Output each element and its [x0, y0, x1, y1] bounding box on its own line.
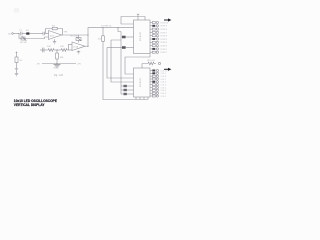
svg-text:COL 2: COL 2: [161, 93, 168, 95]
battery plates: [15, 69, 18, 70]
node D: [118, 27, 119, 28]
ground: [53, 39, 56, 44]
svg-text:Fig. 1-20: Fig. 1-20: [54, 75, 64, 77]
wire: [16, 54, 18, 58]
Vdd stub U3: [141, 64, 143, 69]
resistor R9: [142, 62, 156, 65]
svg-text:IC2 4017: IC2 4017: [140, 31, 142, 41]
row pin 8: [150, 45, 168, 48]
row pin 8: [150, 89, 167, 92]
row pin 9: [150, 92, 167, 95]
node B: [88, 35, 89, 36]
svg-text:ROW 3: ROW 3: [161, 46, 168, 48]
row pin 6: [150, 38, 168, 41]
capacitor C2: [43, 32, 45, 35]
svg-text:R10 1K: R10 1K: [148, 60, 156, 62]
left pin box P2: [107, 47, 122, 49]
svg-text:ROW 10: ROW 10: [161, 22, 170, 24]
wire (bus x121 upper): [118, 28, 121, 48]
wire: [68, 49, 72, 51]
node C: [103, 27, 104, 28]
left pin box P4: [121, 89, 124, 91]
svg-text:10K: 10K: [47, 46, 51, 48]
faint page mark: [14, 8, 19, 13]
node E: [88, 46, 89, 47]
wire (bus x111): [111, 40, 134, 82]
row pin 10: [150, 51, 168, 54]
row pin 7: [150, 41, 168, 44]
svg-text:ROW 2: ROW 2: [161, 49, 168, 51]
svg-text:10K: 10K: [60, 46, 64, 48]
svg-text:ROW 4: ROW 4: [161, 42, 168, 44]
svg-text:IC3 4017: IC3 4017: [140, 77, 142, 87]
row pin 3: [150, 75, 167, 78]
svg-text:TO PIN 14: TO PIN 14: [101, 26, 112, 28]
left pin box P5: [121, 93, 124, 95]
resistor R8 (on bus): [102, 28, 104, 36]
resistor R7: [60, 49, 68, 52]
bypass wire (pin16 loop): [121, 17, 145, 25]
ground GND1: [15, 74, 19, 76]
wire (divider rail): [40, 49, 47, 51]
capacitor C4: [43, 48, 45, 53]
svg-text:R2 1M: R2 1M: [20, 42, 27, 44]
wire: [27, 37, 45, 39]
svg-text:COL 9: COL 9: [161, 73, 168, 75]
battery B1 terminal: [16, 52, 18, 54]
svg-text:COL 4: COL 4: [161, 87, 168, 89]
svg-text:ROW 5: ROW 5: [161, 39, 168, 41]
wire: [16, 63, 18, 69]
wire: [22, 33, 26, 35]
wire: [16, 70, 18, 74]
svg-text:10K: 10K: [60, 57, 64, 59]
wire: [56, 59, 58, 64]
capacitor C1: [21, 32, 23, 36]
left bus of U3: [120, 48, 122, 95]
svg-text:COL 8: COL 8: [161, 76, 168, 78]
row pin 5: [150, 35, 168, 38]
rows of U3 outputs: [150, 69, 168, 98]
svg-text:ROW 7: ROW 7: [161, 32, 168, 34]
potentiometer R2: [19, 34, 27, 39]
svg-text:R5 10K: R5 10K: [71, 36, 79, 38]
terminal T1: [158, 62, 160, 64]
svg-text:-9V: -9V: [37, 64, 41, 66]
svg-text:ROW 9: ROW 9: [161, 26, 168, 28]
trimmer R5: [76, 38, 81, 41]
node G: [57, 63, 58, 64]
row pin 9: [150, 48, 168, 51]
wire: [55, 49, 60, 51]
svg-text:COL 1: COL 1: [161, 96, 168, 98]
left pin box P1: [121, 36, 122, 38]
svg-text:COL 6: COL 6: [161, 82, 168, 84]
node F: [57, 50, 58, 51]
input jack J1: [12, 33, 14, 35]
row pin 2: [150, 72, 167, 75]
arrow A1: [164, 18, 171, 21]
wire: [30, 33, 43, 35]
wire (to clock bus): [88, 28, 134, 46]
wire (bus x103): [103, 41, 136, 99]
wire: [56, 50, 58, 53]
row pin 1: [150, 69, 168, 72]
left pin box P3: [121, 85, 124, 87]
svg-text:+9V: +9V: [77, 64, 81, 66]
wire (lower rail): [42, 63, 76, 65]
row pin 7: [150, 86, 167, 89]
resistor R6: [56, 53, 59, 59]
title text: [14, 98, 57, 107]
wire (U1a output): [62, 34, 89, 36]
ground GND2: [54, 65, 61, 67]
capacitor C3 / ground: [77, 51, 80, 55]
IC U3 (CD4017): [134, 68, 151, 97]
battery B1: [15, 57, 18, 63]
wire: [126, 47, 134, 49]
wire (bus x107): [107, 48, 134, 79]
resistor R3: [52, 27, 57, 30]
op-amp U1b: [72, 42, 85, 51]
svg-text:COL 5: COL 5: [161, 85, 168, 87]
arrow A2: [164, 68, 171, 71]
svg-text:ROW 1: ROW 1: [161, 52, 168, 54]
resistor R1: [26, 32, 29, 34]
row pin 10: [150, 95, 167, 98]
feedback wire: [45, 29, 63, 38]
svg-text:COL 10: COL 10: [161, 70, 169, 72]
row pin 4: [150, 78, 167, 81]
row pin 6: [150, 84, 167, 87]
row pin 4: [150, 31, 168, 34]
svg-text:COL 7: COL 7: [161, 79, 168, 81]
Vdd stub: [137, 14, 139, 20]
svg-text:ROW 6: ROW 6: [161, 36, 168, 38]
wire: [126, 36, 134, 38]
wire (row bus to IC3 carry): [125, 54, 150, 75]
wire: [14, 33, 19, 35]
row pin 2: [150, 25, 168, 28]
svg-text:ROW 8: ROW 8: [161, 29, 168, 31]
IC U2 (CD4017): [134, 20, 151, 54]
svg-text:IC1b: IC1b: [74, 47, 79, 49]
wire (U1b output): [85, 45, 88, 47]
row pin 1: [150, 21, 169, 24]
wire: [78, 35, 80, 43]
svg-text:VERTICAL DISPLAY: VERTICAL DISPLAY: [14, 102, 45, 107]
svg-text:COL 3: COL 3: [161, 90, 168, 92]
bottom stubs of U3: [136, 97, 148, 100]
row pin 3: [150, 28, 168, 31]
op-amp U1a: [49, 31, 62, 40]
node A: [19, 33, 20, 34]
rows of U2 outputs: [150, 21, 169, 54]
resistor R4: [47, 49, 55, 52]
svg-text:GND: GND: [54, 68, 59, 70]
row pin 5: [150, 81, 167, 84]
wire (U1b inputs): [69, 44, 73, 50]
